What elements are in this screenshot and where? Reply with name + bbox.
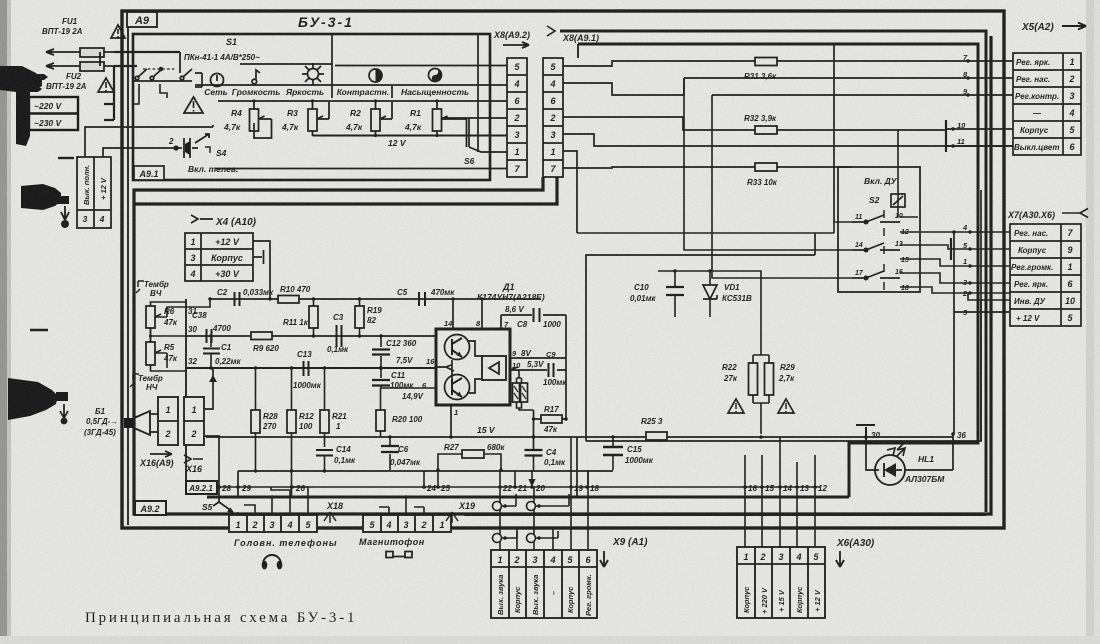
C4 — [533, 456, 535, 471]
risers below nodes into connectors — [500, 470, 815, 550]
C11 — [381, 368, 436, 388]
wire row7 — [215, 168, 507, 170]
top bus of pots — [218, 100, 507, 102]
left table (Вык. пит. / +12V) — [77, 157, 111, 228]
wiper R1 wire to pin2 — [442, 117, 508, 119]
X18 risers — [238, 487, 308, 515]
wires from fuses to panel — [100, 52, 180, 120]
thick bus from X8(A9.1) top to right frame — [560, 31, 986, 512]
S2 contact 2 — [852, 243, 900, 252]
X4 corpus bar and +12V riser wire — [253, 241, 270, 299]
R16 R18 hatch marks — [514, 386, 526, 399]
C12 — [380, 336, 382, 368]
capacitor C38 series on W2 — [207, 329, 212, 343]
pin stubs X5 — [957, 53, 968, 146]
tone pot R5 — [146, 342, 155, 365]
vertical x566 — [565, 315, 567, 420]
capacitor C5 — [419, 292, 425, 306]
risers above nodes — [424, 437, 815, 487]
plug blob 3 (speaker connector) — [8, 378, 58, 420]
thick bus y497 — [207, 496, 849, 499]
pin 7 riser — [500, 315, 502, 329]
node 19 18 — [569, 485, 573, 489]
X19 circle contacts row2 — [493, 531, 559, 543]
capacitor C3 series — [337, 325, 342, 347]
bottom 12V bus — [313, 135, 508, 137]
S1 mains switch contacts — [133, 52, 202, 104]
wire W5 to node36 (already), R22 bottom node — [759, 435, 763, 439]
VD1 zener — [709, 271, 711, 311]
pin 8 — [481, 299, 483, 329]
junction dots amp left — [208, 297, 361, 369]
node wire row — [217, 486, 820, 488]
resistor R32 — [755, 126, 777, 134]
node 30 ground — [856, 425, 875, 443]
thick bus 2 — [578, 44, 978, 497]
pin1 down — [450, 436, 452, 438]
resistor R12 — [287, 410, 296, 433]
wire to X5 row2 — [684, 77, 1013, 79]
IC internal wires — [436, 341, 482, 393]
R16 R18 pair — [517, 370, 534, 410]
pin 14 — [452, 299, 454, 329]
label A9.1 — [134, 166, 164, 180]
tape icon — [386, 552, 412, 558]
warning triangles under R22 R29 — [728, 399, 794, 413]
inner amp box right part — [814, 233, 816, 255]
wire X8 pin5 to X5 row1 with R31 — [563, 61, 1013, 66]
corpus bar at X5 — [945, 120, 947, 152]
C15 — [612, 437, 614, 470]
Насыщенность icon — [429, 69, 442, 82]
wire W3 signal bus — [186, 367, 436, 369]
S2 contact 3 — [852, 271, 900, 280]
R17 — [541, 415, 562, 423]
wire W1 +12V rail — [210, 298, 541, 300]
panel box A9.1 — [133, 34, 490, 180]
capacitor C1 — [210, 336, 212, 368]
warning triangle left — [98, 78, 114, 92]
S2 contact 1 — [852, 210, 900, 290]
C6 — [389, 437, 391, 470]
potentiometer R1 — [433, 101, 467, 147]
potentiometer R2 — [371, 101, 392, 136]
main bus W5 y=437 — [206, 436, 953, 438]
Яркость sun icon — [302, 63, 324, 85]
C8 wire — [501, 314, 566, 316]
small dash — [58, 157, 74, 159]
resistor R31 — [755, 58, 777, 66]
X16 col2 wires up — [204, 368, 219, 502]
wire R33 row — [563, 167, 852, 168]
label A9.2 — [135, 501, 166, 515]
arrow below lower blob — [61, 206, 69, 220]
S2 remote box — [838, 167, 920, 292]
node 28 29 — [217, 485, 221, 489]
wire W2 — [186, 335, 436, 337]
connector table X6(A30) — [737, 547, 825, 618]
node 16 15 14 13 12 — [743, 485, 747, 489]
resistor R11 — [309, 306, 318, 328]
connector X8(A9.1) pin column — [543, 58, 563, 177]
Сеть icon — [211, 74, 224, 87]
resistor R28 — [251, 410, 260, 433]
R20 — [376, 410, 385, 431]
pin 1 stub — [450, 405, 452, 437]
potentiometer R3 — [308, 101, 329, 136]
node 24 25 — [422, 485, 426, 489]
capacitor C14 — [316, 450, 333, 456]
transistor T1 — [445, 335, 470, 360]
resistor R33 — [755, 163, 777, 171]
wire to X5 row3 — [712, 94, 1013, 96]
wire WL1 pin31 — [186, 299, 210, 307]
node 36 — [951, 432, 955, 436]
wires into left table — [85, 125, 213, 157]
X19 circle contacts row1 — [493, 494, 570, 511]
R22 R29 pair — [753, 355, 769, 434]
connector X8(A9.2) pin column — [507, 58, 527, 177]
resistor R19 — [355, 306, 364, 328]
Контрастн. icon — [369, 69, 382, 82]
R25 — [646, 432, 667, 440]
node 22 21 20 — [498, 485, 502, 489]
HL1 LED — [866, 434, 953, 470]
lower plug blob — [21, 184, 61, 210]
resistor R21 — [320, 410, 329, 433]
top wire C10 VD1 R22 — [658, 271, 761, 355]
warning triangle inside panel — [184, 97, 203, 113]
capacitor C13 series on W3 — [304, 361, 309, 376]
amp triangle — [482, 356, 506, 380]
frame A9 inner left line — [127, 14, 129, 525]
junction dot — [952, 230, 956, 234]
connector table X4(A10) — [185, 233, 253, 281]
potentiometer R4 — [250, 101, 272, 138]
connector X16(A9) cells — [158, 397, 204, 445]
board frame A9 — [122, 11, 1004, 528]
headphones icon — [263, 555, 281, 564]
wires S2 left — [577, 78, 852, 278]
resistor R9 — [251, 332, 272, 340]
node 26 — [290, 485, 294, 489]
inner amp box — [586, 255, 815, 441]
long wires to right — [464, 514, 986, 516]
X4 pointer symbol — [191, 215, 213, 223]
board frame A9.2 — [134, 36, 991, 514]
~220V boxes — [29, 97, 78, 130]
resistor R10 — [278, 296, 299, 304]
connector X18 row — [229, 515, 317, 532]
pin 9 wire 8V — [510, 357, 566, 359]
warning triangle top — [111, 25, 125, 38]
wire W6 lower bus — [238, 471, 613, 497]
wire X8 pin3/1 long — [563, 134, 1013, 146]
connector table X7(A30.X6) — [1010, 224, 1081, 326]
connector table X9(A1) — [491, 550, 597, 618]
C10 — [674, 271, 676, 311]
wire R32 row — [563, 117, 946, 130]
transistor T2 — [445, 375, 470, 400]
capacitor C2 — [235, 292, 240, 306]
Громкость note icon — [252, 70, 260, 84]
R27 — [462, 450, 484, 458]
bus wire lower of X8 — [134, 177, 557, 204]
X7 pin stubs — [962, 223, 968, 317]
section divider lines — [195, 35, 507, 152]
pin 10 wire, C9 — [510, 367, 566, 370]
connector table X5(A2) — [1013, 53, 1081, 155]
X19 risers — [372, 497, 442, 515]
wire +12V X7 to node 36 — [954, 232, 1010, 434]
label A9 — [127, 12, 157, 27]
label A9.2.1 — [186, 299, 217, 494]
wire S2 pin11 to bus — [833, 44, 835, 222]
mains plug blob — [0, 66, 42, 146]
wires S2 right to X7 — [898, 130, 1010, 293]
IC box — [436, 329, 510, 405]
page edge shading — [0, 0, 7, 644]
connector X19 row — [363, 515, 451, 532]
